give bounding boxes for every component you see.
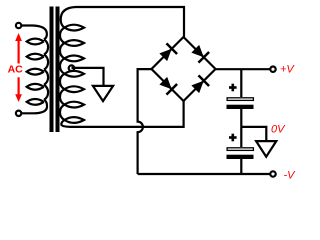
capacitor C2 plus sign	[229, 134, 237, 142]
wire C1 to 0V node	[240, 109, 242, 127]
wire TP1 to primary	[22, 26, 47, 40]
ground symbol (center tap)	[93, 86, 113, 101]
svg-text:0V: 0V	[271, 124, 286, 136]
wire +V rail	[216, 68, 270, 70]
transformer core	[50, 7, 60, 133]
diode D3 (left to bottom)	[158, 75, 178, 95]
wire bridge left to bottom rail with hop	[138, 69, 152, 174]
terminal +V	[270, 67, 275, 72]
transformer primary winding L1	[27, 39, 48, 105]
wire secondary center tap	[72, 68, 104, 85]
diode D4 (bottom to right)	[190, 75, 210, 95]
ground symbol (0V)	[256, 141, 276, 157]
capacitor C1 plus sign	[229, 84, 237, 92]
AC arrow down	[15, 77, 22, 102]
capacitor C1	[227, 98, 254, 109]
wire 0V node to ground	[241, 127, 266, 140]
AC arrow up	[15, 33, 22, 64]
bridge rectifier diamond	[152, 37, 216, 101]
diode D1 (left to top)	[158, 43, 178, 63]
wire secondary bottom to bridge bottom	[61, 101, 183, 127]
wire bottom rail (-V)	[138, 173, 270, 175]
wire +V rail to C1	[240, 69, 242, 97]
wire primary to TP2	[22, 100, 48, 113]
diode D2 (top to right)	[190, 43, 210, 63]
terminal TP1 (AC input top)	[16, 23, 21, 28]
wire 0V node to C2	[240, 127, 242, 147]
terminal TP2 (AC input bottom)	[16, 111, 21, 116]
secondary center tap curl	[69, 65, 75, 71]
svg-text:+V: +V	[280, 64, 295, 76]
capacitor C2	[227, 148, 254, 159]
wire secondary top to bridge top	[61, 7, 184, 37]
svg-text:AC: AC	[8, 63, 24, 75]
terminal -V	[270, 171, 275, 176]
svg-text:-V: -V	[284, 169, 297, 181]
wire C2 to bottom rail	[240, 159, 242, 174]
transformer secondary winding L2	[60, 25, 84, 123]
